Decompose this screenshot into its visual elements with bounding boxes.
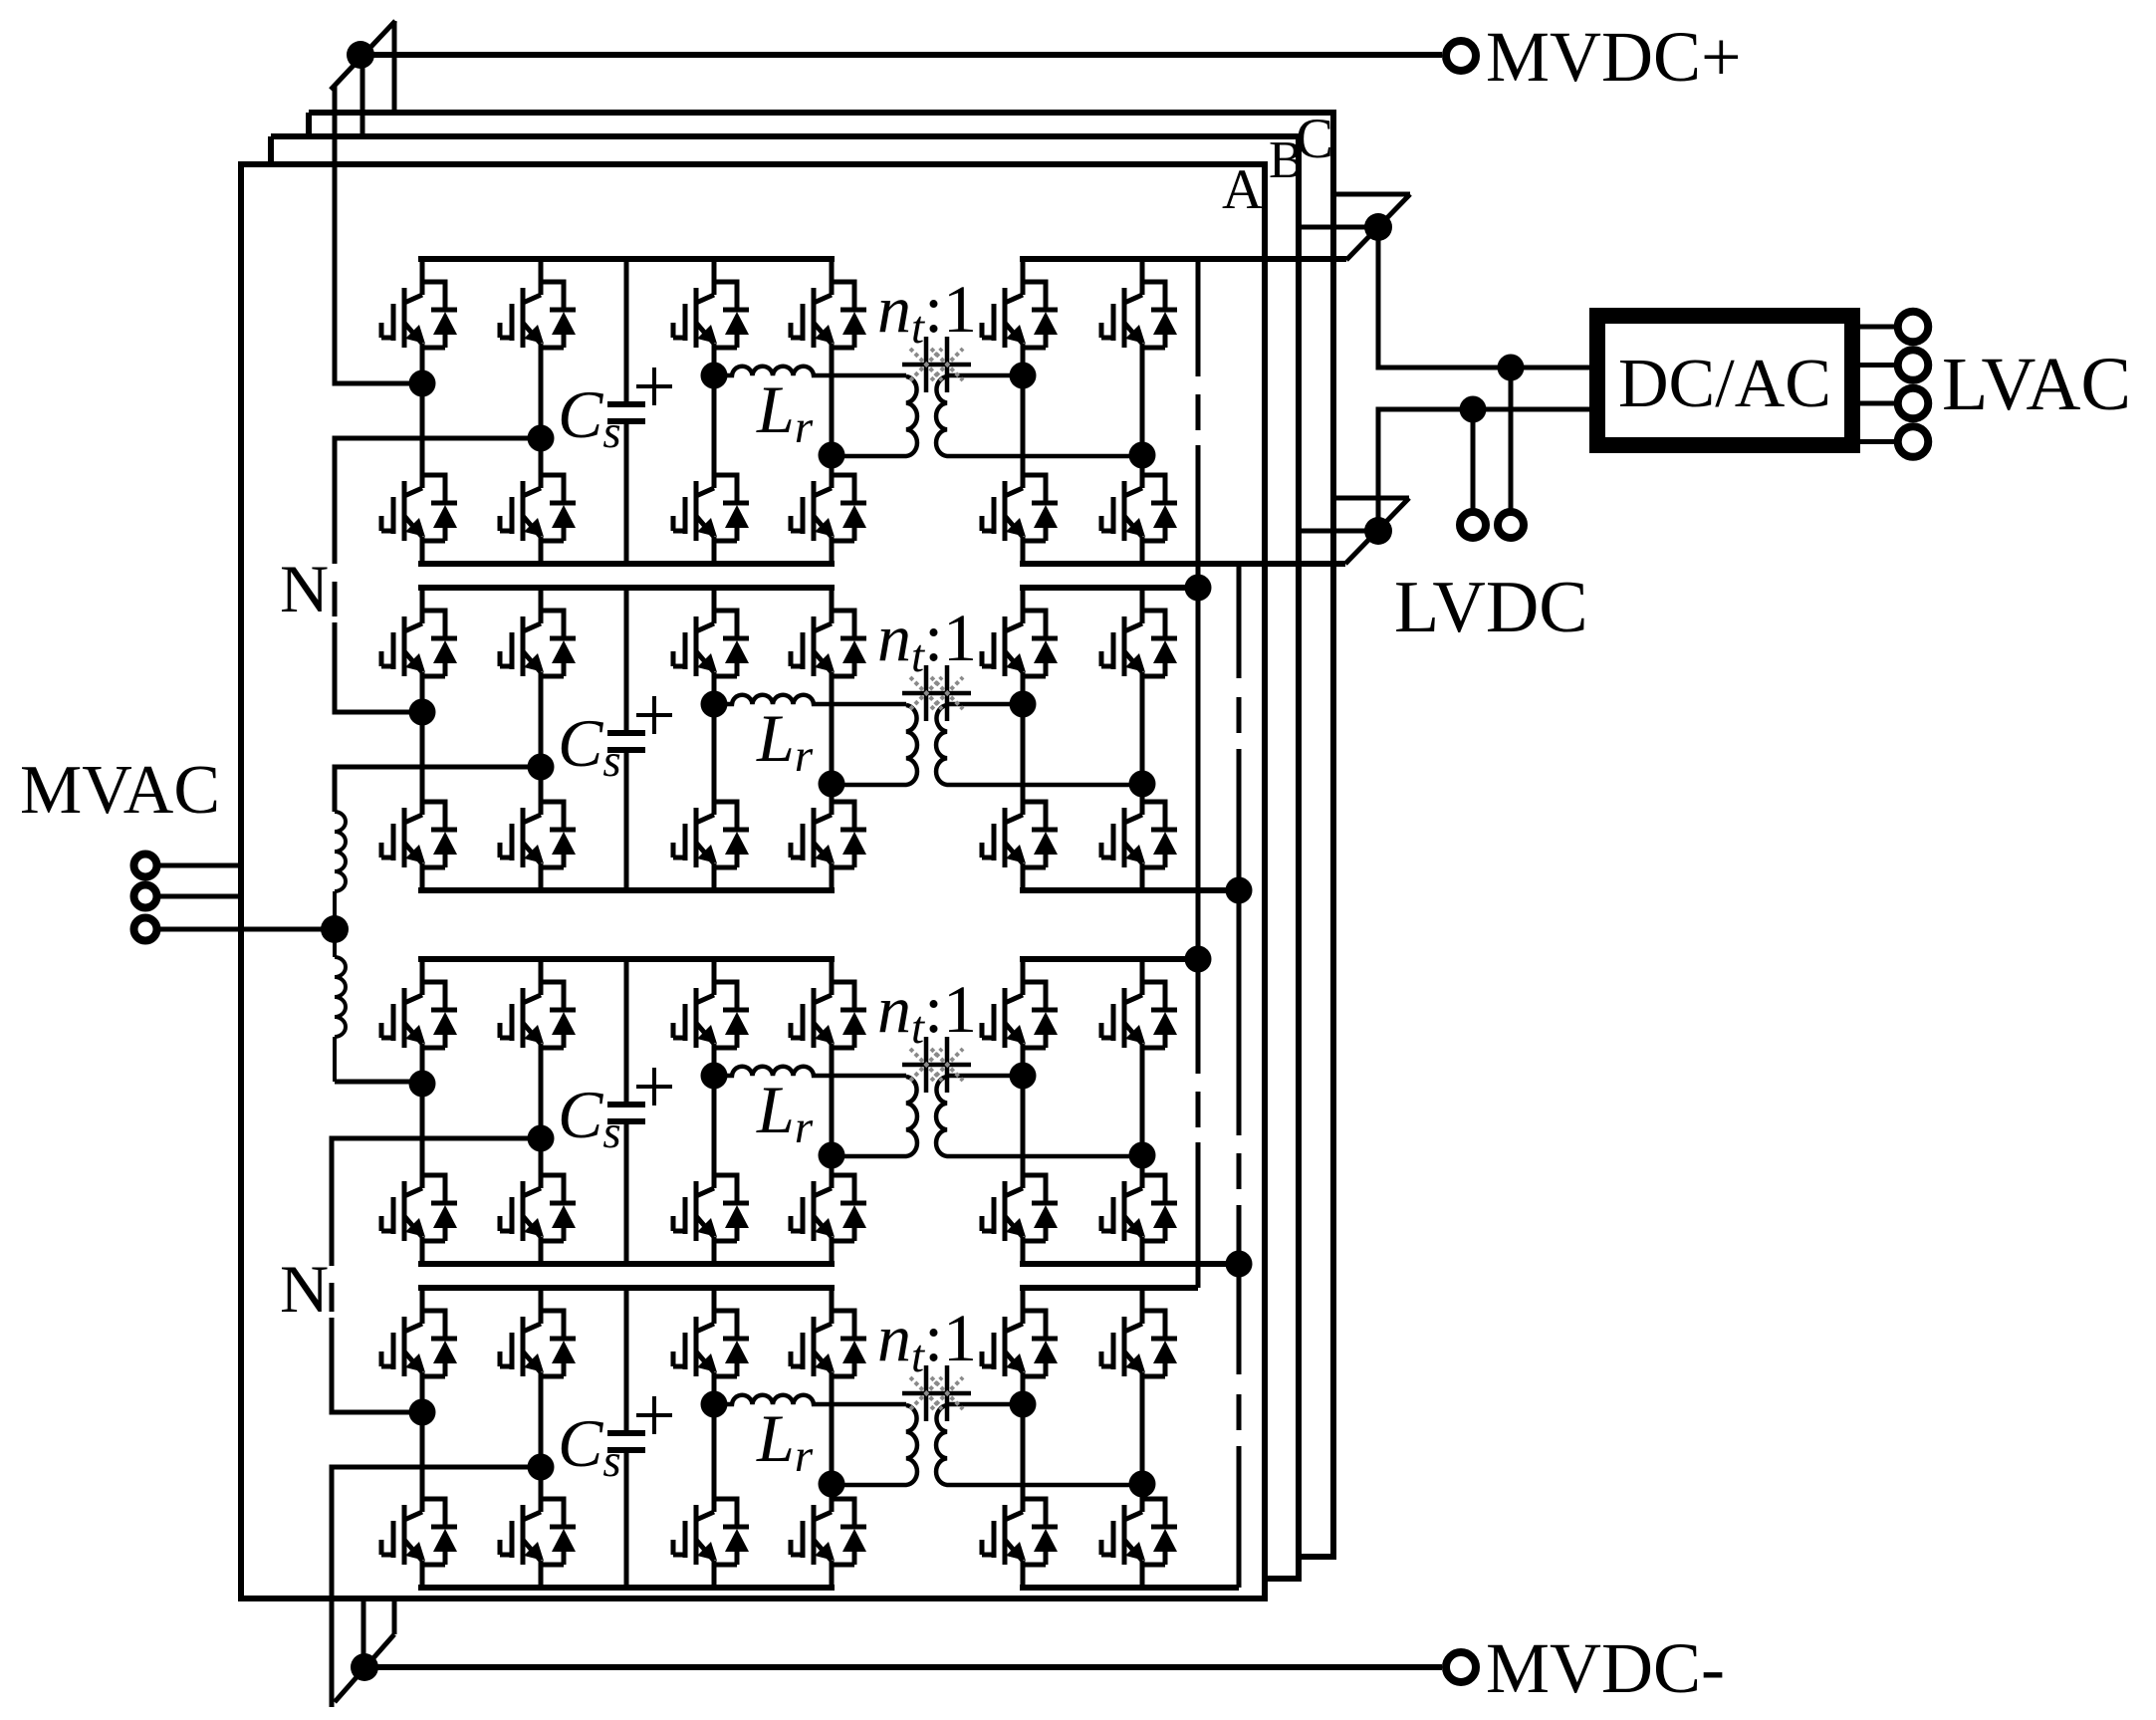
row 2 output top rail (1020, 585, 1198, 591)
IGBT row 3 output right upper (1101, 982, 1177, 1048)
row 1 output right leg wire (1140, 259, 1145, 564)
IGBT row 3 HF bridge left lower (673, 1175, 749, 1241)
IGBT row 4 output left lower (982, 1499, 1058, 1565)
row 1 DC-link top rail (418, 256, 835, 262)
wire LVDC- flag diagonal (1345, 498, 1409, 564)
row 1 HF bridge right leg wire (830, 259, 835, 564)
transformer row 2 secondary winding (936, 704, 1142, 785)
LVDC terminal circle 1 (1460, 512, 1486, 538)
wire LVAC stub 1 (1860, 325, 1895, 330)
junction dot row 2 output left midpoint (1010, 691, 1037, 718)
svg-text:Cs: Cs (558, 1405, 621, 1487)
row 4 DC-link top rail (418, 1285, 835, 1291)
wire MVAC phase b stub (157, 894, 244, 899)
row 1 output left leg wire (1021, 259, 1026, 564)
IGBT row 3 input left upper (381, 982, 457, 1048)
IGBT row 4 HF bridge right lower (791, 1499, 866, 1565)
wire MVAC phase c to arm midpoint (157, 927, 335, 932)
IGBT row 1 HF bridge left lower (673, 475, 749, 541)
capacitor Cs row 1 (624, 259, 629, 564)
bus LVDC- break dashes (1237, 697, 1242, 1430)
junction dot row 3 output left midpoint (1010, 1063, 1037, 1090)
svg-text:nt:1: nt:1 (877, 271, 977, 354)
junction dot MVDC+ (347, 41, 374, 69)
IGBT row 2 HF bridge right upper (791, 611, 866, 676)
transformer row 4 core star marks (902, 1365, 971, 1421)
transformer row 3 core star marks (902, 1037, 971, 1093)
junction dot row 4 HF bridge right midpoint (819, 1471, 845, 1498)
junction dot row 1 input left midpoint (409, 370, 436, 397)
row 4 output bottom rail (1020, 1585, 1239, 1591)
LVAC terminal circle 3 (1898, 388, 1929, 419)
IGBT row 1 output right upper (1101, 282, 1177, 348)
svg-text:Lr: Lr (756, 371, 814, 453)
junction dot row 3 input right midpoint (528, 1125, 555, 1152)
MVDC- terminal circle (1446, 1652, 1476, 1682)
junction dot row 1 HF bridge right midpoint (819, 442, 845, 469)
row 4 output right leg wire (1140, 1288, 1145, 1588)
junction dot LVDC- bundle (1364, 517, 1392, 545)
row 4 input left leg wire (420, 1288, 425, 1588)
IGBT row 3 HF bridge right upper (791, 982, 866, 1048)
junction dot bus+ row2 (1185, 575, 1212, 602)
IGBT row 2 input right lower (500, 802, 576, 867)
MVAC terminal circle c (134, 918, 157, 941)
junction dot row 3 input left midpoint (409, 1071, 436, 1098)
MVAC terminal circle b (134, 885, 157, 908)
LVAC terminal circle 2 (1898, 350, 1929, 380)
capacitor Cs row 2 (624, 588, 629, 890)
wire phase B LVDC+ link (1298, 225, 1378, 230)
row 2 input left leg wire (420, 588, 425, 890)
IGBT row 1 input left lower (381, 475, 457, 541)
IGBT row 4 input right lower (500, 1499, 576, 1565)
svg-text:MVDC-: MVDC- (1486, 1628, 1725, 1708)
inductor Lr row 4 (714, 1395, 906, 1404)
IGBT row 4 output left upper (982, 1311, 1058, 1376)
wire MVDC+ bus horizontal (360, 52, 1442, 58)
junction dot row 2 HF bridge left midpoint (701, 691, 728, 718)
IGBT row 1 input left upper (381, 282, 457, 348)
junction dot bus- row2 (1226, 877, 1253, 904)
svg-text:Lr: Lr (756, 700, 814, 782)
transformer row 4 secondary winding (936, 1404, 1142, 1485)
row 3 DC-link top rail (418, 956, 835, 962)
IGBT row 4 HF bridge left lower (673, 1499, 749, 1565)
transformer row 3 secondary winding (936, 1076, 1142, 1156)
wire MVDC- bus horizontal (364, 1664, 1442, 1670)
DC/AC converter block (1597, 316, 1852, 445)
bus LVDC- vertical (solid segments) (1237, 565, 1242, 1588)
row 1 output bottom rail to LVDC- flag (1020, 561, 1345, 567)
junction dot row 1 HF bridge left midpoint (701, 363, 728, 389)
bus LVDC+ break dashes (1196, 394, 1201, 1127)
LVAC terminal circle 1 (1898, 312, 1929, 343)
wire LVAC stub 4 (1860, 439, 1895, 444)
junction dot MVDC- (351, 1653, 378, 1681)
row 3 output top rail (1020, 956, 1198, 962)
row 1 DC-link bottom rail (418, 561, 835, 567)
panel B (phase B converter frame) (271, 136, 1299, 1579)
IGBT row 1 input right lower (500, 475, 576, 541)
IGBT row 2 input left lower (381, 802, 457, 867)
junction dot bus+ row3 (1185, 946, 1212, 973)
wire row4 output down to MVDC- (332, 1467, 541, 1707)
wire LVAC stub 3 (1860, 401, 1895, 406)
junction dot row 1 output left midpoint (1010, 363, 1037, 389)
wire phase C to MVDC+ (vertical) (392, 21, 397, 113)
IGBT row 3 output left upper (982, 982, 1058, 1048)
row 2 output bottom rail (1020, 887, 1239, 893)
IGBT row 1 output left upper (982, 282, 1058, 348)
IGBT row 2 HF bridge left lower (673, 802, 749, 867)
svg-text:C: C (1296, 108, 1333, 170)
row 3 input right leg wire (539, 959, 544, 1264)
IGBT row 3 input right upper (500, 982, 576, 1048)
svg-text:Lr: Lr (756, 1072, 814, 1153)
wire LVDC+ flag diagonal (1346, 194, 1410, 260)
IGBT row 2 output right lower (1101, 802, 1177, 867)
junction dot row 2 input left midpoint (409, 699, 436, 726)
wire MVAC phase a stub (157, 863, 244, 868)
svg-text:N: N (280, 1251, 329, 1327)
bus LVDC+ vertical (solid segments) (1196, 260, 1201, 1288)
junction dot LVDC+ bundle (1364, 213, 1392, 241)
row 4 input right leg wire (539, 1288, 544, 1588)
MVAC terminal circle a (134, 855, 157, 877)
svg-text:A: A (1222, 158, 1263, 221)
IGBT row 4 input left lower (381, 1499, 457, 1565)
row 4 output left leg wire (1021, 1288, 1026, 1588)
wire LVDC terminal 2 stem (1509, 368, 1514, 509)
junction dot row 3 HF bridge left midpoint (701, 1063, 728, 1090)
wire bundle diagonal bottom-left (335, 1634, 394, 1702)
svg-text:Lr: Lr (756, 1400, 814, 1482)
wire phase C to MVDC- (vertical) (392, 1600, 397, 1634)
row 4 HF bridge left leg wire (712, 1288, 717, 1588)
IGBT row 1 input right upper (500, 282, 576, 348)
row 1 output top rail to LVDC+ flag (1020, 256, 1346, 262)
transformer row 1 core star marks (902, 337, 971, 392)
row 3 DC-link bottom rail (418, 1261, 835, 1267)
IGBT row 2 output left upper (982, 611, 1058, 676)
wire bundle diagonal top-left (331, 21, 395, 90)
IGBT row 3 HF bridge left upper (673, 982, 749, 1048)
IGBT row 3 output right lower (1101, 1175, 1177, 1241)
IGBT row 1 HF bridge left upper (673, 282, 749, 348)
row 1 input left leg wire (420, 259, 425, 564)
transformer row 2 primary winding (833, 705, 917, 785)
svg-text:Cs: Cs (558, 376, 621, 458)
row 2 input right leg wire (539, 588, 544, 890)
junction dot row 2 output right midpoint (1129, 771, 1156, 798)
IGBT row 3 input right lower (500, 1175, 576, 1241)
IGBT row 1 HF bridge right upper (791, 282, 866, 348)
wire LVAC stub 2 (1860, 363, 1895, 368)
capacitor plus sign row 4 (636, 1396, 672, 1434)
inductor Lr row 2 (714, 695, 906, 704)
junction dot row 1 output right midpoint (1129, 442, 1156, 469)
svg-text:nt:1: nt:1 (877, 1300, 977, 1382)
wire phase C LVDC- link (1332, 496, 1409, 501)
row 3 output right leg wire (1140, 959, 1145, 1264)
wire row3 output to row4 input chain (332, 1138, 541, 1412)
junction dot row 1 input right midpoint (528, 425, 555, 452)
row 1 HF bridge left leg wire (712, 259, 717, 564)
svg-text:MVDC+: MVDC+ (1486, 17, 1742, 97)
IGBT row 2 HF bridge left upper (673, 611, 749, 676)
row 4 DC-link bottom rail (418, 1585, 835, 1591)
IGBT row 4 output right upper (1101, 1311, 1177, 1376)
row 3 output left leg wire (1021, 959, 1026, 1264)
IGBT row 4 input left upper (381, 1311, 457, 1376)
junction dot LVDC terminal 1 (1460, 396, 1487, 423)
IGBT row 2 HF bridge right lower (791, 802, 866, 867)
junction dot row 2 input right midpoint (528, 754, 555, 781)
junction dot row 4 output right midpoint (1129, 1471, 1156, 1498)
IGBT row 2 input left upper (381, 611, 457, 676)
IGBT row 1 output left lower (982, 475, 1058, 541)
capacitor plus sign row 1 (636, 368, 672, 405)
MVDC+ terminal circle (1446, 41, 1476, 71)
junction dot row 4 output left midpoint (1010, 1391, 1037, 1418)
row 3 HF bridge left leg wire (712, 959, 717, 1264)
IGBT row 2 output right upper (1101, 611, 1177, 676)
wire row1 output to row2 input chain (335, 438, 541, 712)
svg-text:nt:1: nt:1 (877, 600, 977, 682)
svg-text:MVAC: MVAC (20, 752, 220, 829)
transformer row 1 primary winding (833, 376, 917, 456)
row 2 DC-link top rail (418, 585, 835, 591)
IGBT row 4 HF bridge left upper (673, 1311, 749, 1376)
transformer row 3 primary winding (833, 1077, 917, 1156)
svg-text:N: N (280, 551, 329, 626)
arm inductor lower (3 turns) (335, 957, 346, 1082)
svg-text:LVAC: LVAC (1942, 343, 2131, 426)
wire LVDC- to DC/AC input (1378, 409, 1597, 531)
row 2 HF bridge right leg wire (830, 588, 835, 890)
wire phase A MVDC+ feed to row1 input (335, 86, 422, 383)
wire phase C LVDC+ link (1332, 192, 1410, 197)
IGBT row 2 input right upper (500, 611, 576, 676)
junction dot LVDC terminal 2 (1498, 355, 1525, 381)
svg-text:Cs: Cs (558, 1077, 621, 1158)
junction dot row 2 HF bridge right midpoint (819, 771, 845, 798)
inductor Lr row 1 (714, 367, 906, 375)
row 2 DC-link bottom rail (418, 887, 835, 893)
IGBT row 2 output left lower (982, 802, 1058, 867)
transformer row 4 primary winding (833, 1405, 917, 1485)
svg-text:nt:1: nt:1 (877, 971, 977, 1054)
IGBT row 4 output right lower (1101, 1499, 1177, 1565)
transformer row 2 core star marks (902, 665, 971, 721)
IGBT row 3 input left lower (381, 1175, 457, 1241)
IGBT row 1 output right lower (1101, 475, 1177, 541)
row 3 output bottom rail (1020, 1261, 1239, 1267)
junction dot row 4 input right midpoint (528, 1454, 555, 1481)
panel A (phase A converter frame) (241, 164, 1265, 1598)
row 3 HF bridge right leg wire (830, 959, 835, 1264)
junction dot row 3 output right midpoint (1129, 1142, 1156, 1169)
LVDC terminal circle 2 (1498, 512, 1524, 538)
LVAC terminal circle 4 (1898, 426, 1929, 457)
wire row2 output down to upper arm inductor (335, 767, 541, 812)
wire phase B to MVDC+ (vertical) (360, 55, 365, 136)
IGBT row 1 HF bridge right lower (791, 475, 866, 541)
wire lower arm to row3 input (335, 1080, 422, 1085)
IGBT row 4 input right upper (500, 1311, 576, 1376)
capacitor Cs row 3 (624, 959, 629, 1264)
wire LVDC terminal 1 stem (1471, 409, 1476, 509)
row 4 output top rail (1020, 1285, 1198, 1291)
capacitor plus sign row 3 (636, 1068, 672, 1106)
inductor Lr row 3 (714, 1067, 906, 1076)
junction dot row 4 input left midpoint (409, 1399, 436, 1426)
panel C (phase C converter frame) (309, 113, 1333, 1557)
IGBT row 3 HF bridge right lower (791, 1175, 866, 1241)
arm inductor upper (3 turns) (335, 812, 346, 957)
junction dot bus- row3 (1226, 1251, 1253, 1278)
IGBT row 4 HF bridge right upper (791, 1311, 866, 1376)
svg-text:DC/AC: DC/AC (1618, 346, 1831, 422)
wire phase B to MVDC- (vertical) (361, 1600, 366, 1667)
row 1 input right leg wire (539, 259, 544, 564)
capacitor Cs row 4 (624, 1288, 629, 1588)
IGBT row 3 output left lower (982, 1175, 1058, 1241)
transformer row 1 secondary winding (936, 375, 1142, 456)
junction dot row 4 HF bridge left midpoint (701, 1391, 728, 1418)
svg-text:LVDC: LVDC (1394, 567, 1588, 648)
junction dot row 3 HF bridge right midpoint (819, 1142, 845, 1169)
row 2 HF bridge left leg wire (712, 588, 717, 890)
row 2 output left leg wire (1021, 588, 1026, 890)
row 2 output right leg wire (1140, 588, 1145, 890)
row 3 input left leg wire (420, 959, 425, 1264)
row 4 HF bridge right leg wire (830, 1288, 835, 1588)
wire phase B LVDC- link (1298, 529, 1378, 534)
junction dot MVAC phase c node (321, 915, 349, 943)
capacitor plus sign row 2 (636, 696, 672, 734)
svg-text:Cs: Cs (558, 705, 621, 787)
wire LVDC+ to DC/AC input (1378, 227, 1597, 368)
